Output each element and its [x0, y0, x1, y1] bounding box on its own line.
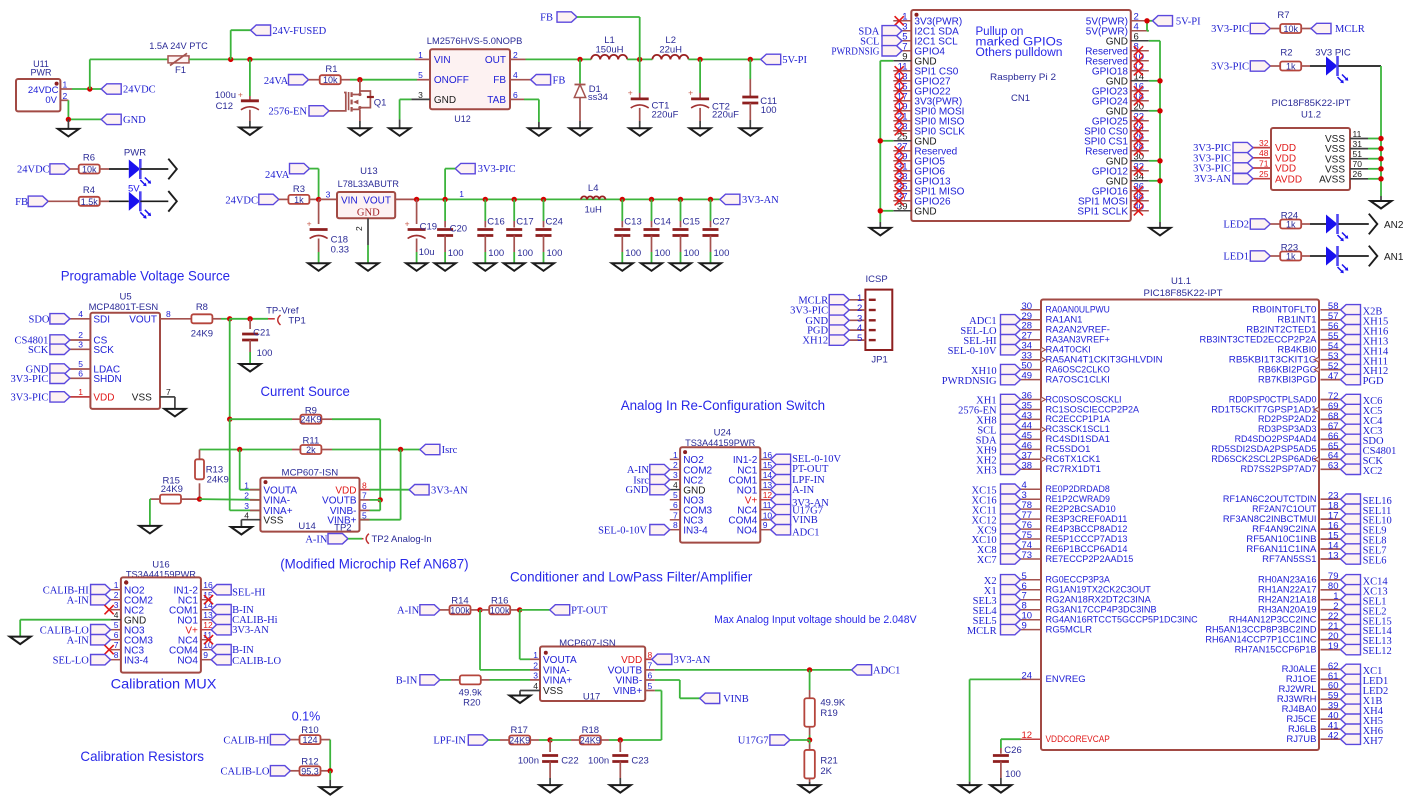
label GND — [26, 364, 70, 376]
junction C13 node — [620, 197, 625, 202]
svg-text:SEL-0-10V: SEL-0-10V — [598, 525, 647, 536]
svg-text:1: 1 — [673, 450, 678, 460]
label 3V3-PIC above rail — [455, 163, 515, 175]
connector CN1 right pins — [1077, 12, 1148, 218]
svg-text:51: 51 — [1353, 149, 1363, 159]
svg-text:TP1: TP1 — [288, 315, 305, 326]
junction C23 node — [618, 737, 623, 742]
ground below U1.2 — [1371, 201, 1392, 209]
svg-text:100: 100 — [488, 248, 504, 259]
label 5V-PI at CN1 — [1153, 16, 1202, 28]
svg-text:Conditioner and LowPass Filter: Conditioner and LowPass Filter/Amplifier — [510, 568, 753, 584]
svg-text:24VDC: 24VDC — [17, 165, 50, 176]
svg-text:3V3-PIC: 3V3-PIC — [1211, 62, 1249, 73]
svg-text:24VA: 24VA — [264, 76, 289, 87]
svg-text:3: 3 — [418, 90, 423, 100]
label 24VDC at R3 — [225, 194, 278, 206]
resistor R21 2K — [804, 740, 837, 785]
resistor R4 1.5k — [48, 185, 129, 207]
wire R9 to VOUTB — [332, 419, 380, 500]
svg-text:1: 1 — [114, 580, 119, 590]
svg-text:VDDCOREVCAP: VDDCOREVCAP — [1046, 734, 1110, 745]
svg-text:VINB: VINB — [792, 515, 818, 526]
resistor R12 95.3 — [290, 756, 330, 776]
svg-text:C15: C15 — [683, 217, 700, 228]
wire R11 to Isrc — [332, 449, 420, 451]
svg-text:PT-OUT: PT-OUT — [571, 606, 608, 617]
svg-text:100: 100 — [1005, 769, 1021, 780]
ground below U12 TAB — [528, 128, 549, 136]
svg-text:SDO: SDO — [28, 314, 49, 325]
svg-text:150uH: 150uH — [596, 45, 624, 56]
svg-text:8: 8 — [166, 309, 171, 319]
title Current Source — [261, 383, 350, 399]
svg-text:VSS: VSS — [132, 393, 152, 404]
svg-text:49.9K: 49.9K — [820, 697, 845, 708]
svg-text:C24: C24 — [546, 217, 563, 228]
svg-text:GND: GND — [434, 95, 456, 106]
svg-text:SEL-LO: SEL-LO — [53, 655, 90, 666]
ground below C16 — [475, 263, 496, 271]
svg-text:A-IN: A-IN — [67, 635, 90, 646]
svg-text:3: 3 — [673, 470, 678, 480]
wire R9 left — [230, 418, 301, 420]
svg-text:U14: U14 — [298, 521, 315, 532]
label 24V-FUSED — [251, 25, 327, 37]
svg-text:3: 3 — [114, 600, 119, 610]
wire to PT-OUT — [520, 609, 550, 611]
label 3V3-AN at U24 pin12 — [771, 495, 830, 509]
svg-text:6: 6 — [114, 630, 119, 640]
svg-text:5V-PI: 5V-PI — [1176, 16, 1201, 27]
capacitor C19 10u — [405, 199, 437, 263]
junction R14/R16 node — [477, 607, 482, 612]
mcu U1.1 right pins — [1200, 301, 1341, 745]
wire 24VDC from U11 pin1 — [72, 88, 101, 90]
svg-text:RD7SS2PSP7AD7: RD7SS2PSP7AD7 — [1240, 464, 1316, 475]
label PT-OUT — [550, 605, 608, 617]
svg-text:+: + — [405, 218, 410, 228]
svg-text:VINA+: VINA+ — [543, 676, 572, 687]
svg-text:220uF: 220uF — [652, 110, 679, 121]
capacitor C23 100n — [588, 740, 649, 785]
title Modified Microchip — [280, 555, 468, 571]
label LPF-IN — [433, 735, 488, 747]
svg-text:Analog In Re-Configuration Swi: Analog In Re-Configuration Switch — [621, 397, 825, 413]
junction C20 node — [442, 197, 447, 202]
no-connect marks CN1 right — [1134, 46, 1143, 215]
resistor R18 24K9 — [550, 725, 620, 746]
title Analog In Re-Configuration Switch — [621, 397, 825, 413]
label CALIB-LO at U16 pin9 — [211, 655, 281, 667]
label 3V3-AN at U14 — [409, 485, 468, 497]
sheet pin arrow AN2 — [1369, 214, 1404, 235]
junction CN1 pin30 — [1157, 158, 1162, 163]
label SEL-HI at U16 pin16 — [211, 585, 266, 599]
svg-text:0V: 0V — [45, 95, 57, 106]
svg-text:24VDC: 24VDC — [28, 85, 59, 96]
capacitor CT2 220uF — [688, 59, 739, 128]
svg-text:IN3-4: IN3-4 — [124, 656, 149, 667]
svg-text:Others pulldown: Others pulldown — [976, 47, 1063, 59]
label ADC1 — [852, 665, 901, 677]
svg-text:U5: U5 — [120, 292, 132, 303]
inductor L4 1uH — [581, 183, 605, 215]
label 2576-EN — [269, 106, 330, 118]
ground below calibration resistors — [320, 771, 341, 795]
svg-text:1: 1 — [459, 189, 464, 199]
svg-text:3: 3 — [78, 340, 83, 350]
svg-text:PWR: PWR — [31, 68, 52, 78]
svg-text:1: 1 — [533, 650, 538, 660]
label 3V3-PIC at R2 — [1211, 61, 1270, 73]
svg-text:OUT: OUT — [485, 55, 506, 66]
svg-text:U17: U17 — [583, 692, 600, 703]
svg-text:5: 5 — [857, 333, 862, 344]
resistor R2 1k — [1270, 47, 1326, 71]
svg-text:RH7AN15CCP6P1B: RH7AN15CCP6P1B — [1235, 644, 1317, 655]
svg-text:2: 2 — [244, 491, 249, 501]
svg-text:U1.2: U1.2 — [1301, 109, 1321, 120]
svg-text:4: 4 — [513, 70, 518, 80]
transistor Q1 n-mosfet — [329, 80, 386, 128]
svg-text:24K9: 24K9 — [207, 475, 229, 486]
ground at U16 GND — [10, 637, 31, 645]
label FB at U12 pin4 — [531, 75, 566, 87]
svg-text:25: 25 — [1259, 169, 1269, 179]
wire U11 pin2 to GND flag — [68, 100, 101, 119]
label FB at R4 — [15, 196, 48, 208]
junction C24 node — [541, 197, 546, 202]
label Isrc at U24 pin3 — [633, 475, 670, 487]
label U17G7 — [738, 735, 790, 747]
svg-text:SCK: SCK — [93, 345, 114, 356]
mcu power U1.2 PIC18F85K22-IPT — [1271, 98, 1351, 190]
resistor R13 24K9 — [195, 459, 229, 499]
svg-text:124: 124 — [302, 735, 317, 745]
resistor R24 1k — [1270, 210, 1326, 229]
label LPF-IN at U24 pin14 — [771, 475, 826, 486]
svg-text:GND: GND — [123, 115, 146, 126]
svg-text:3V3-AN: 3V3-AN — [1194, 174, 1231, 185]
svg-text:100: 100 — [625, 248, 641, 259]
junction VOUTB node — [378, 497, 383, 502]
svg-text:2: 2 — [114, 590, 119, 600]
svg-text:SEL-0-10V: SEL-0-10V — [948, 346, 997, 357]
svg-text:XH7: XH7 — [1363, 736, 1383, 747]
capacitor C26 100 — [993, 745, 1022, 785]
svg-text:SEL-0-10V: SEL-0-10V — [792, 454, 841, 465]
label SEL-0-10V at U24 pin16 — [771, 454, 842, 465]
junction CN1 pin34 — [1157, 178, 1162, 183]
capacitor C18 0.33 — [307, 199, 349, 263]
label 3V3-AN rail — [720, 194, 779, 206]
svg-text:C12: C12 — [216, 101, 233, 112]
wire vref rail down — [229, 319, 231, 419]
label VINB at U24 pin10 — [771, 515, 818, 527]
mcu U1.1 PIC18F85K22-IPT — [1041, 276, 1319, 750]
ground below C24 — [533, 263, 554, 271]
junction R11/R13 corner — [199, 450, 201, 460]
svg-text:9: 9 — [203, 650, 208, 660]
svg-text:6: 6 — [78, 369, 83, 379]
svg-text:1.5k: 1.5k — [81, 197, 99, 207]
resistor R14 100K — [440, 596, 480, 616]
opamp U17 MCP607-ISN — [520, 638, 655, 703]
label ADC1 at U24 pin9 — [771, 525, 820, 539]
label 5V-PI — [761, 54, 808, 66]
label CS4801 — [15, 335, 70, 347]
svg-text:26: 26 — [1353, 169, 1363, 179]
svg-text:1k: 1k — [294, 195, 304, 205]
svg-text:31: 31 — [1353, 139, 1363, 149]
svg-text:SCK: SCK — [28, 345, 49, 356]
junction C14 node — [649, 197, 654, 202]
svg-text:VINB-: VINB- — [616, 676, 643, 687]
diode D1 ss34 — [574, 59, 608, 128]
junction C22 node — [547, 737, 552, 742]
label LED2 — [1223, 219, 1270, 231]
svg-text:100: 100 — [655, 248, 671, 259]
svg-text:R2: R2 — [1280, 47, 1292, 58]
sheet pin arrow FB — [168, 191, 177, 212]
ground below C19 — [406, 263, 427, 271]
svg-text:49: 49 — [1022, 371, 1033, 382]
svg-text:24K9: 24K9 — [509, 736, 530, 746]
svg-text:ADC1: ADC1 — [792, 527, 819, 538]
svg-text:100k: 100k — [490, 605, 510, 615]
sheet pin arrow AN1 — [1369, 246, 1404, 267]
wire to VINA- — [200, 498, 261, 501]
svg-text:ONOFF: ONOFF — [434, 75, 469, 86]
junction R13/R15 node — [197, 496, 202, 501]
note max analog input — [714, 614, 917, 626]
svg-text:11: 11 — [1353, 129, 1362, 139]
svg-text:ENVREG: ENVREG — [1046, 674, 1086, 685]
svg-text:+: + — [307, 218, 312, 228]
svg-text:Raspberry Pi 2: Raspberry Pi 2 — [990, 72, 1056, 83]
junction CN1 pin14 — [1157, 78, 1162, 83]
svg-text:3V3-PIC: 3V3-PIC — [478, 164, 516, 175]
resistor R9 24K — [300, 405, 332, 424]
svg-text:LPF-IN: LPF-IN — [433, 736, 466, 747]
svg-text:RG5MCLR: RG5MCLR — [1046, 624, 1093, 635]
label SCK — [28, 344, 70, 356]
svg-text:3V3-AN: 3V3-AN — [431, 485, 468, 496]
svg-text:ss34: ss34 — [588, 92, 608, 103]
ground below C26 — [990, 785, 1011, 793]
connector CN1 Raspberry Pi 2 — [911, 10, 1131, 221]
svg-text:0.33: 0.33 — [331, 245, 350, 256]
svg-text:RA7OSC1CLKI: RA7OSC1CLKI — [1046, 374, 1110, 385]
ground at U17 VSS — [510, 691, 531, 704]
junction C19 node — [414, 197, 419, 202]
svg-text:U13: U13 — [360, 166, 377, 177]
svg-text:R6: R6 — [83, 153, 95, 164]
svg-text:R7: R7 — [1277, 10, 1289, 21]
svg-text:SEL12: SEL12 — [1363, 646, 1392, 657]
junction FB/CT1 node — [637, 57, 642, 62]
capacitor C21 100 — [242, 319, 272, 364]
svg-text:RF7AN5SS1: RF7AN5SS1 — [1262, 554, 1316, 565]
wire R14 node to VINA- — [480, 610, 540, 670]
ground below C21 — [240, 364, 261, 372]
label 3V3-AN at U16 pin12 — [211, 625, 269, 637]
svg-text:F1: F1 — [175, 65, 186, 76]
svg-text:24K9: 24K9 — [300, 415, 321, 425]
ground below C17 — [504, 263, 525, 271]
junctions U1.2 VSS bus — [1378, 136, 1383, 182]
wire U1.2 VSS bus — [1380, 139, 1382, 202]
svg-text:VIN: VIN — [341, 195, 358, 206]
svg-text:MCP4801T-ESN: MCP4801T-ESN — [89, 302, 159, 313]
label 3V3-PIC at VDD32 — [1193, 142, 1253, 154]
svg-text:R3: R3 — [293, 184, 305, 195]
svg-text:C13: C13 — [624, 217, 641, 228]
junction ADC1 node — [807, 667, 812, 672]
svg-text:CALIB-LO: CALIB-LO — [221, 766, 270, 777]
ground below C18 — [308, 263, 329, 271]
label SDO — [28, 314, 69, 326]
connector CN1 left pins — [893, 12, 965, 218]
ground below C15 — [670, 263, 691, 271]
no-connect U16 pin3 — [105, 605, 114, 614]
label U17G7 at U24 pin11 — [771, 504, 823, 516]
junction R8 node — [227, 316, 232, 321]
capacitor C20 100 — [437, 199, 467, 263]
svg-text:7: 7 — [166, 387, 171, 397]
svg-text:+: + — [688, 88, 693, 98]
label B-IN at U16 pin14 — [211, 605, 254, 617]
resistor R8 24K9 — [191, 302, 230, 339]
wire U14 VDD to 3V3-AN — [370, 489, 410, 491]
label 3V3-AN at U17 — [652, 654, 711, 666]
svg-text:2: 2 — [673, 460, 678, 470]
mcu U1.2 VSS pins — [1350, 129, 1381, 179]
label A-IN at U16 pin2 — [67, 595, 111, 607]
svg-text:U12: U12 — [454, 114, 471, 125]
svg-text:70: 70 — [1353, 159, 1363, 169]
wire PT-OUT node to VOUTA — [520, 610, 540, 659]
svg-text:MCLR: MCLR — [1335, 24, 1365, 35]
svg-text:5: 5 — [114, 620, 119, 630]
junction CN1 pin20 — [1157, 108, 1162, 113]
svg-text:ADC1: ADC1 — [873, 666, 900, 677]
svg-text:Current Source: Current Source — [261, 383, 350, 399]
wire L2 to 5V-PI — [688, 58, 760, 60]
ground at ENVREG — [959, 785, 980, 793]
label A-IN at TP2 — [305, 534, 348, 546]
svg-text:3V3-PIC: 3V3-PIC — [10, 393, 48, 404]
svg-text:SEL6: SEL6 — [1363, 556, 1387, 567]
svg-text:VINA-: VINA- — [263, 496, 290, 507]
svg-text:R17: R17 — [510, 725, 527, 736]
svg-text:A-IN: A-IN — [397, 606, 420, 617]
capacitor C15 100 — [673, 199, 700, 263]
ground below C11 — [740, 128, 761, 136]
svg-text:Q1: Q1 — [374, 98, 387, 109]
svg-text:100k: 100k — [450, 605, 470, 615]
svg-text:100: 100 — [547, 248, 563, 259]
junction Q1 gate-drain node — [357, 77, 362, 82]
svg-text:1: 1 — [418, 50, 423, 60]
label SEL-LO at U16 pin8 — [53, 655, 111, 667]
resistor R11 2k — [300, 436, 332, 455]
test point TP2 — [334, 523, 432, 546]
capacitor CT1 220uF — [628, 59, 679, 128]
junction Isrc branch — [398, 447, 403, 452]
labels at U1.1 left — [942, 315, 1021, 637]
labels at U1.1 right — [1341, 305, 1397, 747]
label CALIB-HI at R10 — [223, 734, 290, 746]
no-connect marks CN1 left — [895, 16, 904, 205]
svg-text:TAB: TAB — [487, 95, 506, 106]
svg-text:R18: R18 — [582, 725, 599, 736]
label SEL-0-10V at U24 pin8 — [598, 525, 670, 537]
svg-text:10u: 10u — [419, 247, 435, 258]
svg-text:VINB: VINB — [723, 694, 749, 705]
capacitor C17 100 — [506, 199, 533, 263]
svg-text:5: 5 — [418, 70, 423, 80]
svg-text:C20: C20 — [450, 223, 467, 234]
resistor R20 49.9k — [440, 675, 540, 708]
label 24VA above U13 — [265, 163, 310, 181]
svg-text:100n: 100n — [588, 756, 609, 767]
svg-text:PIC18F85K22-IPT: PIC18F85K22-IPT — [1272, 98, 1351, 109]
junction R16/PT-OUT node — [517, 607, 522, 612]
led AN1 — [1326, 246, 1369, 273]
svg-text:VDD: VDD — [1275, 164, 1296, 175]
resistor R10 124 — [290, 725, 330, 745]
svg-text:FB: FB — [553, 75, 566, 86]
junction 5V node — [1144, 18, 1149, 23]
svg-text:AVDD: AVDD — [1275, 174, 1302, 185]
svg-text:38: 38 — [1022, 460, 1033, 471]
svg-text:63: 63 — [1328, 461, 1339, 472]
labels at JP1 — [790, 295, 849, 347]
led FB — [129, 191, 169, 218]
label VINB — [700, 693, 749, 705]
label 3V3-PIC at VDD71 — [1193, 163, 1253, 175]
svg-text:PGD: PGD — [1363, 376, 1384, 387]
label SDA at CN1 — [858, 26, 902, 38]
led PWR 5V — [124, 148, 168, 195]
svg-text:100: 100 — [517, 248, 533, 259]
junction R10/R12 node — [328, 768, 333, 773]
led AN2 — [1326, 214, 1369, 241]
svg-text:3: 3 — [326, 190, 331, 200]
svg-text:FB: FB — [493, 75, 506, 86]
svg-text:Calibration Resistors: Calibration Resistors — [80, 748, 204, 764]
fuse F1 1.5A 24V PTC — [149, 41, 208, 76]
ground below R21 — [799, 785, 820, 793]
svg-text:10k: 10k — [1283, 24, 1298, 34]
regulator U12 LM2576HVS-5.0NOPB — [411, 36, 530, 125]
capacitor C16 100 — [477, 199, 504, 263]
wire CN1 right ground bus — [1149, 41, 1160, 228]
junction C11 node — [748, 57, 753, 62]
svg-text:C26: C26 — [1004, 745, 1021, 756]
resistor R19 49.9K — [804, 670, 846, 740]
svg-text:C16: C16 — [487, 217, 504, 228]
svg-text:9: 9 — [763, 520, 768, 530]
label FB top — [540, 12, 577, 24]
svg-text:RE7ECCP2P2AAD15: RE7ECCP2P2AAD15 — [1046, 554, 1134, 565]
inductor L2 22uH — [652, 35, 688, 59]
wire ENVREG to ground — [970, 679, 1021, 785]
svg-text:2: 2 — [533, 661, 538, 671]
wire U12 GND pin to ground — [400, 99, 412, 128]
